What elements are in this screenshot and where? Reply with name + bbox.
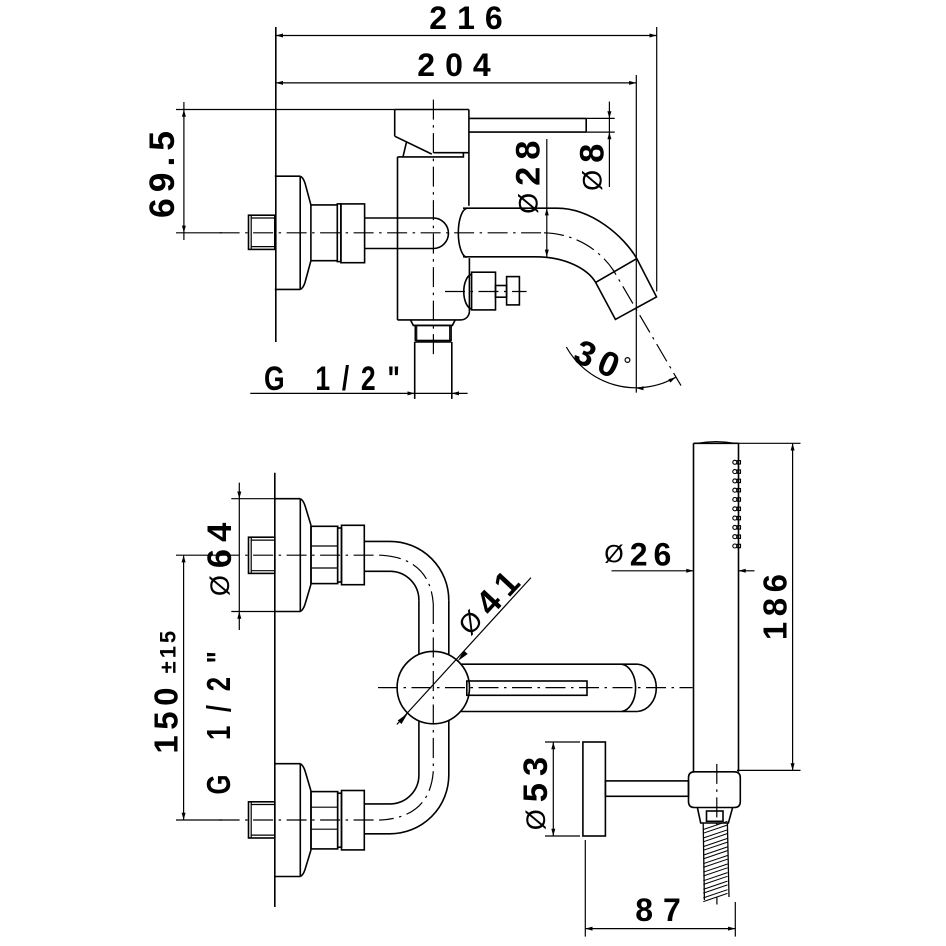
svg-text:Ø26: Ø26 [604,536,677,572]
svg-text:87: 87 [635,892,691,928]
svg-text:Ø64: Ø64 [201,516,239,596]
svg-text:69.5: 69.5 [142,125,182,218]
svg-text:186: 186 [757,569,794,641]
svg-text:150: 150 [147,682,184,754]
svg-text:±15: ±15 [156,628,181,674]
svg-text:Ø8: Ø8 [574,137,612,191]
svg-text:G 1/2": G 1/2" [201,637,238,794]
svg-text:216: 216 [429,0,512,36]
svg-text:Ø28: Ø28 [509,134,547,214]
svg-text:204: 204 [417,47,500,83]
svg-text:Ø53: Ø53 [517,750,555,830]
svg-text:G 1/2": G 1/2" [264,360,412,398]
